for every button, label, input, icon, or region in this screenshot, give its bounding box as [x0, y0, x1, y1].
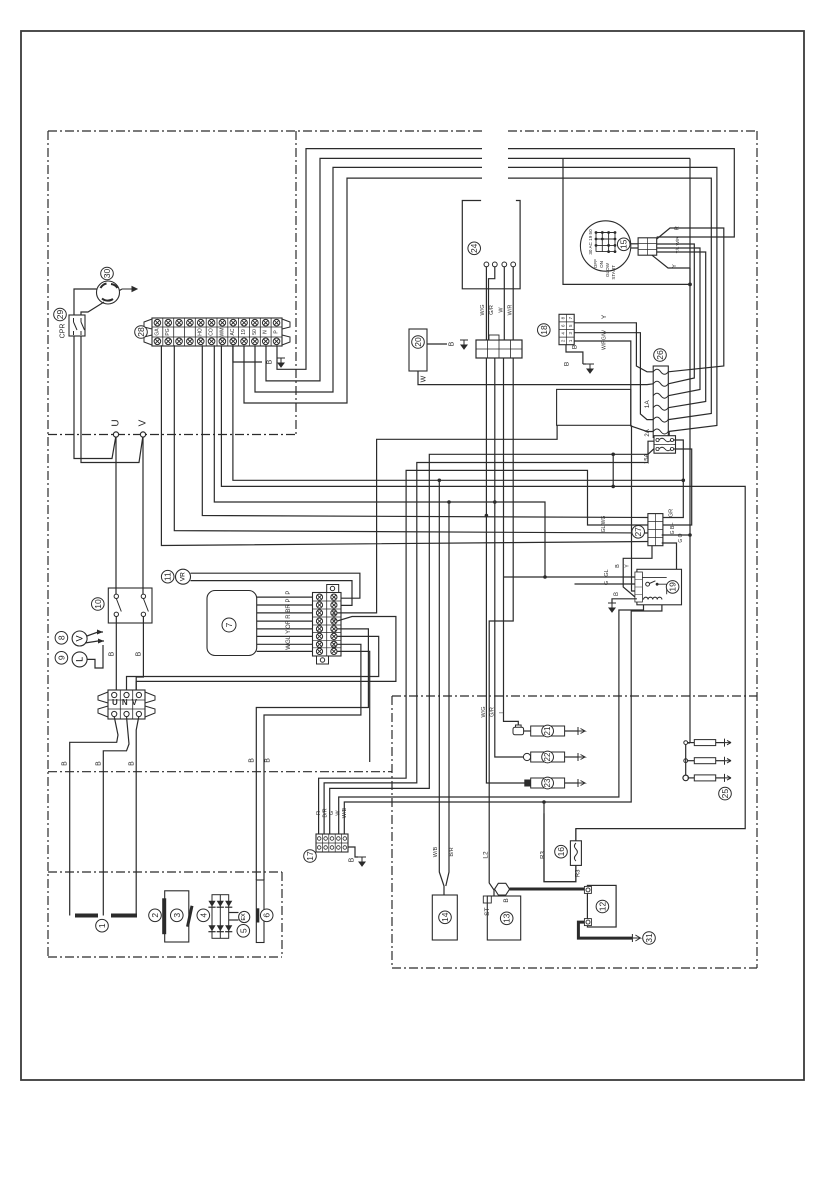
svg-text:14: 14 — [440, 912, 450, 922]
CPR switch 29 box — [69, 315, 85, 336]
junction dot y515 — [485, 514, 489, 518]
svg-text:Y: Y — [625, 564, 631, 568]
svg-text:PG: PG — [165, 328, 171, 335]
svg-text:B: B — [129, 761, 136, 766]
wire run y545 to conn27 row4 — [161, 345, 648, 545]
circled 13 — [500, 912, 513, 925]
wire voltmeter to switch leg b — [85, 641, 104, 643]
terminals of 24 — [484, 262, 516, 267]
circled 8 — [55, 632, 68, 645]
circled 28 — [135, 326, 148, 339]
CPR switch contacts — [74, 318, 85, 335]
terminal block 28 — [144, 318, 290, 346]
arrow from receptacle 30 — [122, 287, 137, 292]
frame dash right-box left x392 — [391, 696, 393, 968]
svg-text:2A: 2A — [645, 429, 651, 436]
svg-text:11: 11 — [163, 572, 173, 581]
junction dot box15 — [688, 283, 692, 287]
svg-text:START: START — [611, 265, 616, 280]
svg-text:B: B — [136, 651, 143, 656]
svg-text:G/R: G/R — [489, 305, 495, 315]
svg-text:12: 12 — [597, 902, 607, 912]
wire conn15 exit up — [657, 228, 724, 372]
blank box left of fuse bank — [557, 389, 631, 425]
frame dash engine-box right x282 — [281, 872, 283, 957]
lamp resistor 23 — [531, 778, 565, 788]
wire 15 to connector a — [631, 243, 638, 245]
svg-text:Y: Y — [672, 264, 678, 268]
small terminal on 13 — [483, 896, 491, 903]
wire run y515 to conn27 row1 — [202, 345, 648, 517]
thick ground cable — [578, 922, 632, 938]
svg-text:B: B — [564, 362, 571, 366]
svg-text:23: 23 — [543, 778, 552, 787]
svg-text:27: 27 — [633, 527, 643, 537]
wire plug 22 — [530, 756, 532, 758]
junction dot run486 x613 — [611, 485, 615, 489]
wire strip row7 exit to bar6 — [264, 644, 361, 880]
arrow 25 y760.7 — [725, 757, 732, 765]
svg-text:L: L — [75, 657, 85, 662]
wire unit7 Y — [257, 635, 313, 637]
wire 18 WR out — [574, 333, 653, 420]
plug resistor 25 y742.6 — [694, 740, 715, 746]
svg-text:10: 10 — [93, 599, 103, 609]
wire conn17 pin2 up — [324, 441, 654, 834]
wire UNV N bottom to B wire — [103, 717, 129, 916]
circled 3 — [171, 909, 184, 922]
wire unit7 P — [257, 596, 313, 598]
frame dash engine-box top y872 — [48, 871, 282, 873]
control unit 7 box — [207, 591, 257, 656]
arrow lamp 22 — [578, 753, 585, 761]
svg-text:VR: VR — [180, 572, 187, 581]
wire G/R to lamp22 — [495, 358, 524, 757]
wire plug 21 — [524, 730, 531, 732]
svg-text:CPR: CPR — [60, 324, 67, 339]
junction dot 613 top — [611, 453, 615, 457]
wire lamp L hook — [87, 645, 103, 668]
wire conn27 GB out — [662, 534, 690, 536]
frame dash bottom-left y957 — [48, 956, 282, 958]
junction dot GB v690 — [688, 533, 692, 537]
junction dot 545 GL — [543, 575, 547, 579]
svg-text:Y/L W/R: Y/L W/R — [675, 236, 680, 254]
svg-text:R: R — [286, 614, 292, 619]
wire voltmeter to switch leg a — [87, 632, 103, 636]
svg-text:20: 20 — [413, 337, 423, 347]
box around 15 — [563, 158, 690, 284]
wire 15 to connector b — [631, 247, 638, 249]
junction dot y502b — [447, 500, 451, 504]
svg-text:G/R: G/R — [490, 707, 496, 717]
wire strip row3 exit up — [337, 425, 557, 613]
wire terminal ground stub — [233, 345, 262, 362]
svg-text:8: 8 — [56, 635, 66, 640]
wire conn17 pin5 up — [344, 605, 662, 834]
svg-text:R3: R3 — [540, 851, 546, 859]
svg-text:7: 7 — [224, 622, 234, 627]
relay 19 — [635, 569, 682, 605]
svg-text:L: L — [668, 522, 674, 525]
svg-text:B: B — [249, 758, 256, 763]
arrowhead meter b — [98, 639, 104, 644]
ground conn18 — [586, 364, 594, 373]
sensor 14 box — [432, 895, 457, 940]
svg-text:15: 15 — [619, 239, 629, 249]
thick battery cable — [510, 888, 589, 891]
svg-text:3: 3 — [172, 913, 182, 918]
svg-text:G O: G O — [678, 533, 684, 542]
svg-text:F+: F+ — [331, 641, 336, 646]
svg-text:15A: 15A — [645, 453, 651, 464]
svg-text:WM: WM — [219, 328, 225, 337]
svg-text:N: N — [263, 330, 269, 334]
circled 2 — [149, 909, 162, 922]
svg-text:W/R: W/R — [508, 305, 514, 316]
ground for conn17 — [358, 857, 366, 866]
svg-text:V: V — [138, 419, 149, 426]
wire 25 in y760.7 — [688, 760, 695, 762]
arrow lamp 21 — [578, 727, 585, 735]
wire unit7 OR — [257, 628, 313, 630]
connector 27 — [648, 514, 663, 546]
svg-text:B/R: B/R — [449, 847, 455, 856]
wire conn15 exit r3 — [657, 252, 706, 408]
circled 7 — [222, 618, 236, 632]
circled 30 — [101, 267, 114, 280]
svg-text:B: B — [449, 341, 456, 346]
wire gnd conn18 link — [583, 363, 586, 365]
wire 24 t1 down — [485, 267, 487, 340]
wire loop4 W from terminal 19 — [244, 178, 482, 403]
wire relay gnd — [612, 599, 637, 603]
wire R3 from run802 — [544, 802, 576, 882]
svg-text:OFF: OFF — [593, 259, 598, 268]
wire run y486 to fuse16 top — [221, 345, 745, 841]
ground item20 — [460, 340, 468, 349]
junction 25 a — [684, 741, 688, 745]
wire W/B to item14 — [439, 480, 444, 895]
ground arrow 31 — [632, 934, 640, 942]
wire 18 Y out — [574, 323, 653, 372]
svg-text:GR: GR — [668, 509, 674, 517]
wire 25 out y777.9 — [716, 777, 725, 779]
switch 10 contacts — [114, 594, 148, 616]
fuse box 2A 15A — [654, 436, 676, 454]
frame dash right edge — [756, 131, 758, 968]
starter 13 box — [487, 896, 520, 940]
circled 27 — [632, 526, 645, 539]
wire 20 B stub — [427, 343, 447, 345]
ground relay 19 — [608, 603, 616, 612]
svg-text:R: R — [674, 226, 680, 230]
wire to relay G — [575, 583, 635, 585]
box around 15 right edge — [689, 158, 691, 284]
svg-text:W/RG/W: W/RG/W — [602, 330, 608, 350]
bar 6 — [256, 908, 259, 922]
wire 25 out y760.7 — [716, 760, 725, 762]
svg-text:31: 31 — [644, 933, 654, 943]
arrowhead meter a — [97, 630, 103, 635]
frame dash top-left segment — [48, 130, 482, 132]
svg-text:17: 17 — [305, 851, 315, 861]
wire receptacle bottom to CPR — [81, 302, 104, 315]
battery bolt hexagon — [495, 883, 510, 895]
svg-text:V: V — [75, 635, 85, 641]
wire receptacle to arrow — [120, 289, 123, 291]
frame dash partition horizontal y434 — [48, 434, 296, 436]
svg-text:6: 6 — [262, 913, 272, 918]
svg-text:28: 28 — [136, 327, 146, 337]
wire conn17 pin1 up — [319, 470, 649, 834]
svg-text:5: 5 — [238, 928, 248, 933]
wire UNV V bottom down — [136, 717, 139, 916]
svg-text:B: B — [265, 758, 272, 763]
wire W/G to lamp23 — [486, 358, 524, 783]
wire 18 B gnd — [566, 345, 583, 364]
connector block under 24 — [476, 335, 522, 358]
wire UNV U bottom to B wire — [70, 717, 118, 916]
fuse 16 — [570, 841, 581, 866]
svg-text:Y: Y — [286, 630, 292, 634]
svg-text:B: B — [96, 761, 103, 766]
box 24 outline — [462, 201, 520, 289]
node U — [113, 432, 118, 437]
wire conn17 pin3 up — [330, 449, 655, 835]
circled 19 — [666, 581, 679, 594]
switch 3 blade — [188, 906, 193, 927]
connector 18 — [559, 314, 574, 344]
svg-text:30: 30 — [102, 269, 112, 279]
svg-text:25: 25 — [720, 789, 730, 799]
svg-text:W: W — [421, 375, 428, 382]
wire run y530 to conn27 row3 — [174, 345, 648, 533]
circled 17 — [304, 850, 317, 863]
key switch 15 detail circle — [580, 221, 630, 271]
circled 25 — [719, 787, 732, 800]
box around 15 top edge — [563, 157, 690, 159]
junction dot y502 — [493, 500, 497, 504]
voltmeter V — [72, 631, 87, 646]
svg-text:OR: OR — [286, 619, 292, 629]
switch 10 box — [108, 588, 152, 623]
circled 6 — [260, 909, 273, 922]
svg-text:1A: 1A — [644, 400, 651, 409]
terminal block U N V — [98, 690, 155, 719]
wire run y480 to conn27 — [233, 345, 683, 480]
ground symbol near terminal block — [277, 358, 285, 367]
svg-text:19: 19 — [668, 582, 678, 592]
wire CPR right leg down — [81, 336, 143, 463]
circled 31 — [643, 932, 656, 945]
wire unit7 R — [257, 620, 313, 622]
svg-text:50: 50 — [252, 329, 258, 335]
wire conn15 exit down — [652, 255, 690, 268]
wire bridge to EX b — [229, 919, 239, 921]
circled 16 — [555, 845, 568, 858]
wire conn17 gnd stub — [348, 847, 358, 857]
diode bridge 4 — [208, 895, 232, 939]
wire switch10 right to UNV — [136, 617, 143, 691]
fusebox exit row1 to conn27 — [662, 440, 684, 518]
svg-text:B: B — [572, 345, 579, 349]
circled 24 — [468, 242, 481, 255]
svg-text:ST: ST — [484, 908, 491, 916]
wire L to lamp21 — [504, 358, 519, 725]
svg-text:GA: GA — [154, 328, 160, 336]
svg-text:B: B — [614, 592, 620, 596]
svg-text:W/G: W/G — [481, 707, 487, 718]
labels OFF ON GLOW START — [593, 259, 616, 280]
wire lamp 23 to arrow — [565, 782, 578, 784]
svg-text:EX: EX — [241, 913, 247, 921]
wire 25 chain — [685, 745, 687, 776]
svg-text:1: 1 — [97, 923, 107, 928]
svg-text:B: B — [109, 651, 116, 656]
wire run y502 to GL join — [214, 345, 545, 577]
receptacle socket 30 — [97, 281, 120, 304]
junction 25 b — [684, 759, 688, 763]
svg-text:UNV: UNV — [112, 698, 141, 707]
arrow 25 y777.9 — [725, 774, 732, 782]
wire unit7 GL — [257, 643, 313, 645]
circled 20 — [412, 336, 425, 349]
connector 17 — [316, 834, 348, 852]
wire loop3 W from terminal 50 — [255, 167, 482, 392]
wire switch10 left to UNV — [115, 617, 117, 691]
svg-text:19: 19 — [241, 329, 247, 335]
fuse bank 26 — [653, 366, 668, 438]
svg-text:B: B — [267, 359, 274, 364]
frame dash right-box bottom y968 — [392, 967, 757, 969]
svg-text:2B: 2B — [331, 618, 336, 623]
wire loop4 E continuation — [508, 178, 711, 420]
wire loop1 W from terminal P — [277, 149, 482, 370]
plug of lamp 21 — [513, 725, 524, 735]
wire fuse16 top — [575, 829, 577, 841]
junction dot R3 802 — [542, 800, 546, 804]
wire L2 to starter13 — [489, 358, 513, 896]
svg-text:U: U — [111, 419, 122, 426]
wire to 25 from top — [686, 742, 690, 744]
svg-text:24: 24 — [469, 243, 479, 253]
svg-text:21: 21 — [543, 726, 552, 735]
circled 11 — [161, 570, 174, 583]
circled 12 — [596, 900, 609, 913]
svg-text:2: 2 — [150, 913, 160, 918]
svg-text:W/G: W/G — [480, 305, 486, 316]
wire 24 t2 down — [489, 267, 495, 340]
circled 15 — [617, 238, 630, 251]
circled 1 — [96, 919, 109, 932]
svg-text:30 AC 19 50: 30 AC 19 50 — [588, 229, 593, 255]
svg-text:L2: L2 — [483, 851, 490, 859]
wire bridge to EX a — [229, 912, 239, 914]
junction dot run480 x683 — [682, 479, 686, 483]
svg-text:9: 9 — [56, 655, 66, 660]
svg-text:13: 13 — [502, 913, 512, 923]
svg-text:16: 16 — [556, 847, 566, 857]
wire loop3 E continuation — [508, 167, 717, 431]
lamp resistor 22 — [531, 752, 565, 762]
svg-text:G B: G B — [670, 525, 676, 534]
wire VR bracket to strip row2 — [191, 581, 353, 606]
fuse26 exit6 down — [668, 432, 670, 436]
wire unit7 BR — [257, 612, 313, 614]
svg-text:E3: E3 — [331, 610, 336, 616]
frame dash top-right segment — [508, 130, 757, 132]
wire strip row6 exit to N — [127, 636, 379, 690]
junction dot y480 — [438, 479, 442, 483]
svg-text:W/B: W/B — [433, 846, 439, 857]
circled 4 — [197, 909, 210, 922]
svg-text:HO: HO — [198, 328, 204, 336]
wire 18 third out — [574, 341, 653, 432]
frame dash partition horizontal y772 — [48, 771, 392, 773]
bar 2 — [162, 898, 166, 934]
svg-text:22: 22 — [543, 752, 552, 761]
switch 3 box — [165, 891, 189, 942]
svg-text:B: B — [349, 857, 356, 862]
wire CPR left leg down — [74, 336, 116, 459]
svg-text:BR: BR — [286, 604, 292, 613]
lamp L — [72, 652, 87, 667]
wire 24 t3 down — [503, 267, 505, 340]
wire to relay GL — [503, 576, 635, 578]
circled 18 — [538, 324, 551, 337]
frame dash left edge — [47, 131, 49, 957]
box 20 — [409, 329, 427, 371]
wire right bundle v690 — [689, 268, 691, 743]
wire conn15 exit r2 — [657, 248, 700, 396]
svg-text:26: 26 — [655, 350, 665, 360]
svg-text:B: B — [503, 898, 510, 902]
wire U down to switch 10 — [115, 437, 117, 596]
svg-text:G: G — [604, 581, 610, 585]
svg-text:W: W — [499, 307, 505, 313]
circled 22 — [542, 751, 554, 763]
wire 25 out y742.6 — [716, 742, 725, 744]
circled 23 — [542, 777, 554, 789]
svg-text:4: 4 — [198, 913, 208, 918]
node V — [140, 432, 145, 437]
svg-text:W: W — [286, 644, 292, 650]
wire conn15 exit r1 — [657, 244, 695, 384]
wire V down to switch 10 — [142, 437, 144, 596]
wire branch x613 down — [612, 454, 614, 486]
circled 14 — [439, 911, 452, 924]
arrow lamp 23 — [578, 779, 585, 787]
wire lamp 21 to arrow — [565, 730, 578, 732]
wire unit7 W — [257, 650, 313, 652]
svg-text:B: B — [615, 564, 621, 568]
battery 12 — [584, 885, 616, 927]
stator bar 1 left — [75, 914, 98, 918]
wire loop1 E to conn15 — [508, 149, 734, 237]
fusebox exit row2 to conn27 — [662, 449, 692, 525]
svg-text:B: B — [62, 761, 69, 766]
svg-text:P: P — [286, 598, 292, 602]
circled 9 — [55, 652, 68, 665]
circled 29 — [54, 308, 67, 321]
svg-text:AC: AC — [230, 328, 236, 335]
plug resistor 25 y777.9 — [694, 775, 715, 781]
wire VR bracket to strip row1 — [191, 573, 360, 598]
wire B/R to item14 — [446, 502, 449, 886]
junction 25 c — [683, 775, 689, 781]
wire conn17 pin4 up — [339, 605, 644, 834]
